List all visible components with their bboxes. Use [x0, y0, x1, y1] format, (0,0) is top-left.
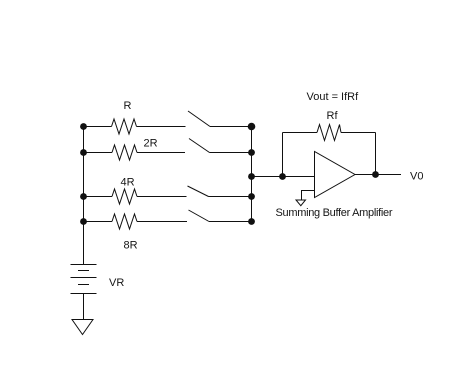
wire row 2 left stub — [84, 152, 113, 154]
switch S2 blade — [189, 139, 210, 153]
wire row 2 to switch — [137, 152, 185, 154]
wire row 4 to switch — [137, 221, 187, 223]
switch S3 blade — [188, 186, 209, 197]
wire row 1 switch to bus — [210, 126, 252, 128]
wire row 4 left stub — [84, 221, 113, 223]
wire row 3 left stub — [84, 196, 113, 198]
op-amp U1 — [315, 152, 356, 198]
node dots right bus — [248, 123, 256, 225]
resistor 4R — [112, 189, 137, 204]
resistor Rf — [317, 125, 341, 141]
ground (battery) — [72, 320, 93, 335]
svg-text:Rf: Rf — [327, 110, 339, 122]
wire: summing node to op-amp inverting input — [252, 176, 315, 178]
node dots left bus — [80, 123, 87, 225]
node: feedback junction — [279, 173, 286, 180]
wire row 1 left stub — [84, 126, 112, 128]
svg-text:8R: 8R — [124, 240, 138, 252]
battery VR — [71, 265, 97, 294]
wire: right bus vertical — [251, 126, 253, 222]
switch S4 blade — [189, 210, 210, 222]
resistor R — [112, 119, 137, 134]
wire: non-inverting input — [302, 191, 315, 201]
wire row 3 to switch — [137, 196, 187, 198]
wire: output — [355, 174, 401, 176]
wire: battery to ground — [83, 294, 85, 320]
svg-text:2R: 2R — [144, 138, 158, 150]
ground (op-amp) — [296, 200, 306, 206]
switch S1 blade — [188, 111, 210, 127]
resistor 8R — [112, 214, 137, 229]
svg-text:VR: VR — [109, 277, 124, 289]
wire row 4 switch to bus — [209, 221, 252, 223]
node: output junction — [372, 171, 379, 178]
resistor 2R — [112, 145, 137, 160]
wire: feedback left vertical — [282, 133, 284, 177]
wire row 1 to switch — [137, 126, 186, 128]
wire: feedback right vertical — [375, 133, 377, 175]
svg-text:4R: 4R — [121, 177, 135, 189]
svg-text:Summing Buffer Amplifier: Summing Buffer Amplifier — [276, 207, 393, 219]
wire row 3 switch to bus — [209, 196, 252, 198]
svg-text:V0: V0 — [410, 171, 423, 183]
wire row 2 switch to bus — [210, 152, 252, 154]
svg-text:Vout = IfRf: Vout = IfRf — [307, 91, 360, 103]
svg-text:R: R — [124, 100, 132, 112]
wire: feedback top left — [283, 132, 318, 134]
wire: left bus vertical — [83, 126, 85, 265]
wire: feedback top right — [341, 132, 376, 134]
